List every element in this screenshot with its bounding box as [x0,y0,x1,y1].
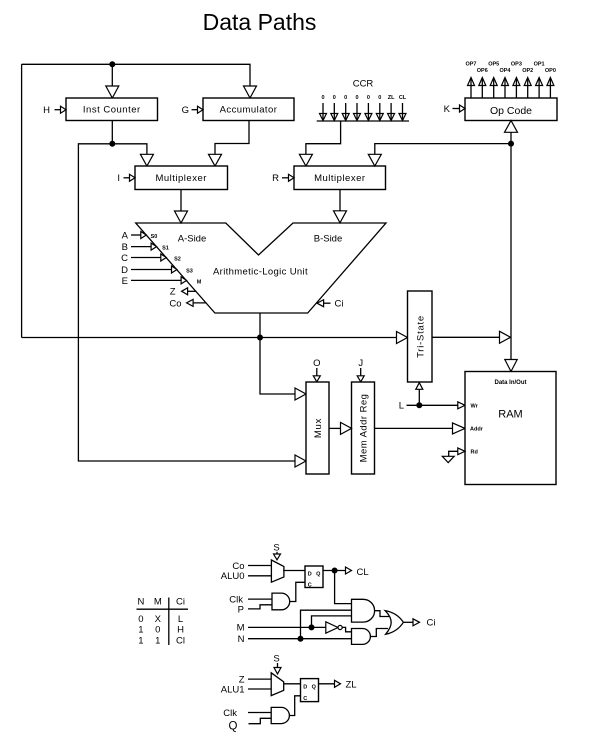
flip-flop ZL [301,679,319,702]
svg-text:1: 1 [155,635,160,646]
arrow into Multiplexer 1 top right [209,154,222,166]
svg-text:O: O [313,358,320,369]
wire Multiplexer 2 to ALU [339,190,341,211]
svg-text:M: M [154,596,162,607]
wire L up to Tri-State enable [418,383,420,405]
arrow into RAM Wr [458,402,465,409]
arrow ZL output [335,680,341,687]
svg-text:OP2: OP2 [522,68,533,74]
svg-text:D: D [121,265,128,276]
svg-text:L: L [399,401,404,412]
register Inst Counter [66,98,158,121]
svg-text:A-Side: A-Side [178,233,207,244]
svg-text:L: L [178,614,183,625]
wire CL feedback to AND1 [335,571,352,604]
svg-text:Z: Z [170,287,176,298]
svg-text:X: X [155,614,162,625]
wire top bus left vertical [21,64,23,337]
wire branch right into Multiplexer 1 [112,144,147,155]
svg-text:M: M [197,279,202,285]
truth table divider line [168,598,170,646]
flip-flop CL [305,566,323,588]
arrow into Multiplexer 1 top left [140,154,153,166]
svg-text:Rd: Rd [471,450,478,456]
node junction M [309,624,315,630]
register Accumulator [203,98,294,121]
and gate clock ZL [271,707,289,723]
wire inverter to AND2 [342,627,352,631]
truth table header line [137,608,189,610]
svg-text:H: H [177,624,184,635]
wire M up to AND1 [312,616,353,628]
svg-text:S2: S2 [174,256,181,262]
node junction ALU output on bus [257,335,263,341]
arrow up into Op Code bottom [505,121,518,133]
svg-text:Multiplexer: Multiplexer [155,173,206,184]
wire junction to Multiplexer 2 [375,144,511,155]
svg-text:G: G [182,105,189,116]
wire flip-flop ZL output [319,683,341,685]
svg-text:B: B [122,242,128,253]
svg-text:OP4: OP4 [499,68,511,74]
svg-text:S: S [273,654,279,665]
svg-text:R: R [272,173,279,184]
svg-text:M: M [237,623,245,634]
wire flip-flop Q output [323,570,351,572]
svg-text:E: E [122,276,128,287]
wire Multiplexer 1 to ALU [180,190,182,212]
wire Mux to Mem Addr Reg [329,427,341,429]
svg-text:OP3: OP3 [511,62,522,68]
arrow into RAM Addr [453,423,466,434]
svg-text:D: D [303,684,307,690]
svg-text:D: D [308,571,312,577]
wire bus junction to Mux upper input [260,338,295,395]
svg-text:OP0: OP0 [545,68,556,74]
svg-text:B-Side: B-Side [314,233,343,244]
svg-text:Data In/Out: Data In/Out [494,380,526,386]
svg-text:1: 1 [138,635,143,646]
svg-text:Q: Q [316,571,321,577]
wire L to RAM Wr [407,404,465,406]
svg-text:0: 0 [344,95,347,101]
arrow into Multiplexer 2 top right [368,154,381,166]
arrow CL output [346,567,352,574]
svg-text:Data Paths: Data Paths [203,9,317,35]
Rd stub wire [449,451,465,456]
wire mux to flip-flop CL [283,570,305,572]
register Mem Addr Reg [352,382,375,474]
svg-text:CL: CL [399,95,407,101]
svg-text:ALU1: ALU1 [221,684,245,695]
svg-text:S0: S0 [151,234,158,240]
wire AND2 to OR [370,629,388,637]
wire Mem Addr Reg to RAM Addr [375,427,453,429]
wire and to flip-flop C [290,582,305,601]
svg-text:0: 0 [367,95,370,101]
arrow into Mux upper input [295,388,306,400]
node junction under Inst Counter [109,141,115,147]
arrow into ALU B-side [334,211,347,223]
svg-text:CL: CL [357,567,369,578]
svg-text:Accumulator: Accumulator [220,105,278,116]
svg-text:Ci: Ci [427,618,436,629]
svg-text:0: 0 [333,95,336,101]
wire OR output [403,621,419,623]
arrow into Tri-State input [397,332,408,344]
and gate AND2 [352,629,371,645]
node junction L [416,402,422,408]
svg-text:OP1: OP1 [534,62,545,68]
svg-text:Wr: Wr [471,404,479,410]
svg-text:Q: Q [312,684,317,690]
wire Op Code feed vertical [510,132,512,359]
svg-text:Ci: Ci [335,299,344,310]
svg-text:K: K [444,104,451,115]
svg-text:0: 0 [378,95,381,101]
CCR bus line [317,120,409,122]
arrow down into RAM top [505,360,517,372]
wire and to flip-flop ZL C [289,696,300,716]
svg-text:I: I [117,173,120,184]
svg-text:Cl: Cl [176,635,185,646]
wire Inst Counter to multiplexer and mux [111,121,113,144]
wire main bus to Tri-State [22,337,397,339]
svg-text:OP5: OP5 [488,62,499,68]
svg-text:A: A [122,230,129,241]
svg-text:N: N [137,596,144,607]
wire branch left down to Mux lower input [78,144,295,461]
register Op Code [465,98,557,121]
svg-text:Arithmetic-Logic Unit: Arithmetic-Logic Unit [213,267,308,278]
arrow into Inst Counter top [106,86,119,98]
svg-text:Multiplexer: Multiplexer [314,173,365,184]
arrow into RAM Rd [458,448,465,455]
svg-text:CCR: CCR [353,79,374,90]
multiplexer I box [135,166,228,190]
svg-text:Ci: Ci [176,596,185,607]
svg-text:RAM: RAM [498,408,522,420]
wire ALU output down [259,313,261,338]
svg-text:Inst Counter: Inst Counter [83,105,141,116]
arrow into ALU A-side [175,211,188,223]
svg-text:C: C [121,253,128,264]
svg-text:N: N [238,634,245,645]
arrow into Accumulator top [244,86,257,98]
ALU body [136,223,386,313]
CCR bit arrows [320,114,327,121]
svg-text:H: H [43,105,50,116]
svg-text:1: 1 [138,624,143,635]
arrow into Multiplexer 2 top left [299,154,312,166]
wire N up to AND1 [301,610,353,639]
and gate clock CL [272,593,290,610]
wire Accumulator to Multiplexer 1 [215,121,249,155]
node junction N [298,636,304,642]
wire Tri-State output [432,336,500,338]
arrow into Mux lower input [295,455,306,467]
wire AND1 to OR [375,611,389,617]
svg-text:0: 0 [355,95,358,101]
and gate AND1 [352,599,375,622]
mux box [306,382,329,474]
mux trapezoid upper [271,560,284,582]
svg-text:C: C [308,582,312,588]
svg-text:J: J [358,358,363,369]
Op Code output arrows [468,78,475,86]
svg-text:Q: Q [229,721,238,733]
inverter M [326,622,338,633]
node junction CL [332,568,338,574]
svg-text:Co: Co [169,298,181,309]
svg-text:0: 0 [321,95,324,101]
svg-text:0: 0 [155,624,160,635]
svg-text:OP6: OP6 [477,68,488,74]
svg-text:S3: S3 [186,268,193,274]
svg-text:0: 0 [138,614,143,625]
mux trapezoid lower [271,673,284,696]
svg-text:Tri-State: Tri-State [415,315,426,358]
svg-text:S1: S1 [162,246,169,252]
node junction top bus [109,61,115,67]
svg-text:Op Code: Op Code [490,105,532,117]
arrow Ci output [413,619,420,626]
svg-text:ALU0: ALU0 [221,571,245,582]
svg-text:ZL: ZL [346,680,357,691]
svg-text:OP7: OP7 [465,62,476,68]
svg-text:Mem Addr Reg: Mem Addr Reg [358,394,369,463]
Rd open arrow [442,456,454,462]
arrow into Mem Addr Reg [341,422,352,434]
arrow Tri-State output to data bus [500,331,511,343]
svg-text:Clk: Clk [223,708,237,719]
wire CCR to Multiplexer 2 [306,121,341,154]
svg-text:Addr: Addr [470,427,484,433]
wire mux to flip-flop ZL [284,683,301,685]
svg-text:ZL: ZL [388,95,395,101]
memory RAM [465,372,556,485]
multiplexer R box [294,166,386,190]
svg-text:P: P [238,604,244,615]
svg-text:Mux: Mux [313,418,324,438]
svg-text:C: C [303,696,307,702]
buffer Tri-State [408,291,433,382]
wire drop to Inst Counter [111,64,113,86]
or gate Ci [385,611,403,635]
node junction below Op Code [508,141,514,147]
wire top bus horizontal [22,64,250,86]
